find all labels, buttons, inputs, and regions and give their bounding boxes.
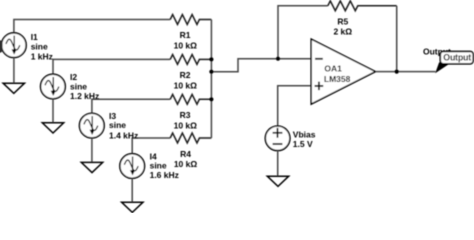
resistor R5 bbox=[328, 1, 397, 11]
svg-text:sine: sine bbox=[109, 120, 126, 130]
resistor R1 bbox=[170, 15, 211, 25]
node dot bus R3 bbox=[209, 97, 213, 101]
svg-text:1.4 kHz: 1.4 kHz bbox=[109, 130, 138, 140]
node dot bus tap bbox=[209, 70, 213, 74]
wire non-inverting input to Vbias bbox=[278, 86, 312, 126]
resistor R4 bbox=[170, 133, 211, 143]
resistor R3 bbox=[170, 94, 211, 104]
svg-text:2 kΩ: 2 kΩ bbox=[333, 27, 352, 37]
svg-text:R2: R2 bbox=[180, 70, 191, 80]
svg-text:1.6 kHz: 1.6 kHz bbox=[150, 170, 179, 180]
svg-text:10 kΩ: 10 kΩ bbox=[174, 120, 198, 130]
current source I1 bbox=[1, 33, 26, 58]
svg-text:Vbias: Vbias bbox=[293, 129, 316, 139]
ground Vbias bbox=[267, 176, 288, 186]
wire I3 top to R3 bbox=[92, 99, 170, 113]
wire summing bus bbox=[210, 20, 212, 139]
wire I4 bottom bbox=[131, 178, 133, 202]
ground I3 bbox=[81, 162, 102, 172]
wire I1 top to R1 bbox=[14, 20, 170, 33]
resistor R2 bbox=[170, 55, 211, 65]
wire I2 bottom bbox=[52, 99, 54, 123]
svg-text:R3: R3 bbox=[180, 110, 191, 120]
ground I4 bbox=[122, 202, 143, 212]
clipped dark shape at left edge bbox=[0, 40, 3, 53]
current source I2 bbox=[41, 74, 66, 99]
svg-text:10 kΩ: 10 kΩ bbox=[174, 40, 198, 50]
svg-text:R4: R4 bbox=[180, 149, 191, 159]
wire I4 top to R4 bbox=[132, 138, 170, 154]
svg-text:Output: Output bbox=[443, 53, 471, 63]
ground I1 bbox=[3, 83, 24, 93]
current source I3 bbox=[79, 113, 104, 138]
svg-text:sine: sine bbox=[31, 42, 48, 52]
wire op-amp output bbox=[376, 71, 436, 73]
net flag pointer bbox=[435, 62, 451, 73]
svg-text:1.2 kHz: 1.2 kHz bbox=[70, 91, 99, 101]
wire bus tap to inverting input bbox=[211, 59, 311, 72]
wire Vbias bottom bbox=[277, 151, 279, 177]
svg-text:OA1: OA1 bbox=[324, 63, 342, 73]
svg-text:10 kΩ: 10 kΩ bbox=[174, 81, 198, 91]
wire R5 feedback loop left leg and top bbox=[278, 6, 328, 59]
node dot feedback junction bbox=[276, 57, 280, 61]
wire I3 bottom bbox=[91, 138, 93, 162]
svg-text:R1: R1 bbox=[180, 30, 191, 40]
svg-text:R5: R5 bbox=[337, 17, 348, 27]
svg-text:10 kΩ: 10 kΩ bbox=[174, 159, 198, 169]
voltage source Vbias bbox=[265, 126, 290, 151]
svg-text:1 kHz: 1 kHz bbox=[31, 51, 53, 61]
node dot bus R2 bbox=[209, 57, 213, 61]
current source I4 bbox=[120, 154, 145, 179]
wire I2 top to R2 bbox=[53, 59, 170, 74]
wire R5 right leg bbox=[396, 6, 398, 72]
op-amp OA1 bbox=[311, 39, 375, 104]
svg-text:1.5 V: 1.5 V bbox=[293, 139, 313, 149]
ground I2 bbox=[42, 123, 63, 133]
svg-text:LM358: LM358 bbox=[324, 74, 351, 84]
net flag box bbox=[440, 51, 473, 63]
node dot output junction bbox=[395, 70, 399, 74]
wire I1 bottom bbox=[13, 58, 15, 84]
